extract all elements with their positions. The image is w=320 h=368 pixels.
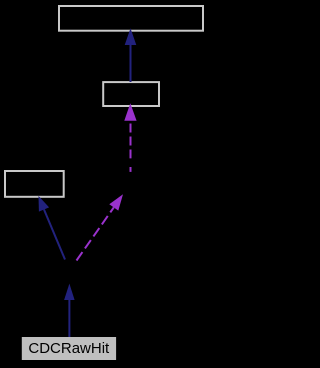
svg-text:CDCRawHit: CDCRawHit (28, 340, 110, 357)
